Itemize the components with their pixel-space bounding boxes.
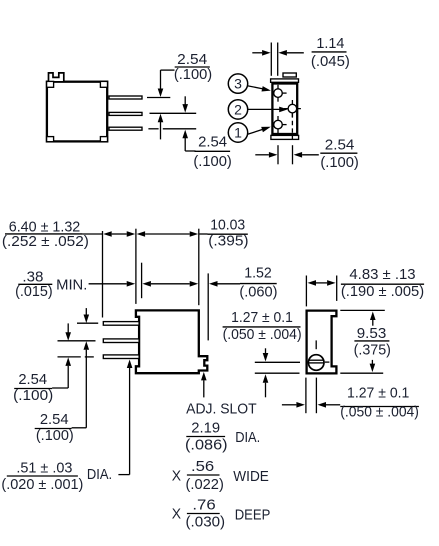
svg-text:X: X — [172, 468, 182, 484]
label 2.54 second — [193, 134, 232, 170]
extension line pin2 center — [150, 112, 197, 114]
svg-text:(.100): (.100) — [13, 388, 53, 404]
top view screw tab — [283, 73, 296, 77]
corner standoff bottom-left — [47, 137, 54, 142]
dim 2.54 pins lower up arrow — [72, 341, 90, 428]
svg-text:(.395): (.395) — [208, 234, 248, 250]
svg-text:.51 ± .03: .51 ± .03 — [16, 461, 72, 477]
extension line pin3 center — [148, 128, 196, 130]
bottom view pin 2 — [103, 339, 139, 343]
label 2.54 top-view — [320, 138, 359, 171]
side view screw tab — [49, 73, 64, 81]
svg-text:1.52: 1.52 — [244, 266, 272, 282]
svg-text:3: 3 — [234, 76, 242, 92]
svg-text:.56: .56 — [191, 459, 214, 475]
dim 2.54 top-view right arrow — [294, 152, 319, 158]
svg-text:MIN.: MIN. — [56, 278, 87, 294]
svg-text:(.100): (.100) — [320, 155, 359, 171]
label 9.53 — [354, 326, 391, 358]
vertical extension body left — [135, 229, 137, 304]
extension line pin1 — [77, 322, 98, 324]
svg-text:10.03: 10.03 — [210, 218, 245, 234]
extension line pin3 — [58, 356, 94, 358]
top view top cap — [271, 79, 299, 82]
label X .76 DEEP — [172, 497, 270, 530]
side view pin 2 — [109, 112, 142, 115]
dim 4.83 arrows — [308, 280, 336, 286]
svg-text:1.14: 1.14 — [316, 36, 344, 52]
label .51 DIA — [1, 461, 112, 494]
leader arrow from 2 — [248, 107, 288, 113]
dim 2.54 second up arrow — [182, 130, 195, 151]
leader arrow from 3 — [247, 86, 271, 92]
svg-text:DEEP: DEEP — [235, 508, 271, 524]
dim 2.54 top up arrow — [158, 114, 164, 140]
extension line pin1 center — [147, 97, 170, 99]
svg-text:(.030): (.030) — [186, 515, 226, 531]
screw center dash right — [325, 361, 330, 363]
label 1.27 left — [223, 310, 302, 343]
label 6.40 — [2, 219, 89, 250]
label 1.52 — [239, 266, 277, 301]
svg-text:(.045): (.045) — [311, 54, 350, 70]
corner standoff bottom-right — [100, 137, 107, 142]
label 10.03 — [208, 218, 249, 250]
top view bottom cap — [271, 135, 299, 139]
svg-text:(.020 ± .001): (.020 ± .001) — [1, 477, 83, 493]
svg-text:X: X — [172, 506, 182, 522]
pin 1 crosshair — [272, 116, 287, 133]
dim 2.54 top down arrow — [158, 70, 175, 97]
circled 2 — [228, 100, 247, 119]
dim .38 arrows — [89, 281, 199, 287]
dim 1.27 left extension lines — [255, 362, 300, 373]
bottom view pin 1 — [103, 322, 139, 326]
leader arrow from 1 — [247, 127, 271, 135]
circled 3 — [228, 74, 247, 93]
side view pin 1 — [109, 96, 142, 99]
svg-text:DIA.: DIA. — [235, 430, 260, 446]
dim 9.53 up arrow — [370, 312, 376, 326]
dim 9.53 down arrow — [370, 360, 376, 372]
bottom view pin 3 — [103, 355, 139, 359]
pin 2 crosshair — [284, 100, 301, 117]
label X .56 WIDE — [172, 459, 269, 493]
vertical extension body right — [198, 229, 200, 306]
label 2.54 lower — [35, 412, 74, 444]
label 2.19 DIA — [185, 421, 260, 454]
svg-text:(.022): (.022) — [186, 477, 224, 493]
svg-text:1.27 ± 0.1: 1.27 ± 0.1 — [231, 310, 293, 326]
svg-text:2.54: 2.54 — [40, 412, 69, 428]
svg-text:.76: .76 — [192, 497, 215, 513]
dim 2.54 top-view left arrow — [255, 152, 277, 158]
dashed centerline below pin 2 — [291, 113, 293, 140]
label ADJ SLOT — [186, 402, 257, 418]
svg-text:2.54: 2.54 — [325, 138, 355, 154]
pin 3 circle — [274, 89, 283, 98]
dim 2.54 pins upper up arrow — [52, 357, 71, 388]
extension line pin2 — [58, 340, 96, 342]
svg-text:2.54: 2.54 — [177, 52, 207, 68]
top view body — [272, 84, 297, 135]
svg-text:2: 2 — [234, 101, 242, 117]
leader DIA to pin — [118, 360, 132, 475]
svg-text:(.252 ± .052): (.252 ± .052) — [2, 234, 89, 250]
dim 2.54 pins lower down arrow — [84, 308, 90, 323]
dim 1.27 bottom extension lines — [306, 378, 317, 414]
label 2.54 upper — [13, 372, 53, 404]
svg-text:(.060): (.060) — [239, 285, 277, 301]
front view body — [307, 311, 337, 374]
label 2.54 top — [174, 52, 212, 83]
svg-text:2.19: 2.19 — [191, 421, 220, 437]
svg-text:WIDE: WIDE — [233, 469, 269, 485]
dim 1.14 left arrow — [252, 50, 270, 56]
dim 2.54 second down arrow — [182, 96, 188, 112]
svg-text:(.100): (.100) — [174, 67, 212, 83]
dim 1.52 right arrow — [209, 281, 240, 287]
corner standoff top-left — [47, 81, 54, 87]
dim 1.27 bottom left arrow — [282, 402, 305, 408]
dim 2.54 pins upper down arrow — [65, 323, 71, 340]
svg-text:(.015): (.015) — [15, 284, 53, 300]
dim 6.40 line and arrows — [83, 231, 136, 237]
label 4.83 — [341, 267, 424, 300]
circled 1 — [228, 123, 247, 142]
svg-text:(.100): (.100) — [36, 428, 74, 444]
vertical extension pin attach — [141, 263, 143, 299]
svg-text:(.375): (.375) — [354, 342, 391, 358]
svg-text:2.54: 2.54 — [18, 372, 47, 388]
vertical extension tab right — [207, 273, 209, 340]
svg-text:(.050 ± .004): (.050 ± .004) — [340, 405, 419, 421]
svg-text:1: 1 — [234, 124, 242, 140]
svg-text:DIA.: DIA. — [87, 467, 112, 483]
dim 9.53 extension lines — [340, 310, 385, 373]
side view body — [47, 82, 107, 142]
leader ADJ SLOT arrow — [201, 372, 207, 398]
svg-text:ADJ. SLOT: ADJ. SLOT — [186, 402, 257, 418]
vertical extension pin end — [102, 231, 104, 318]
svg-text:(.190 ± .005): (.190 ± .005) — [341, 284, 424, 300]
dim 1.14 right arrow — [278, 50, 303, 56]
dim 1.27 bottom right arrow — [318, 402, 341, 408]
side view pin 3 — [109, 127, 142, 130]
label 1.14 — [311, 36, 350, 70]
corner standoff top-right — [100, 81, 107, 87]
dim 1.27 left down arrow — [263, 348, 269, 361]
svg-text:1.27 ± 0.1: 1.27 ± 0.1 — [347, 386, 409, 402]
svg-text:4.83 ± .13: 4.83 ± .13 — [349, 267, 415, 283]
bottom side view body with slot tab — [136, 310, 207, 373]
svg-text:(.100): (.100) — [193, 154, 232, 170]
dim 10.03 line and arrows — [137, 231, 208, 237]
screw center tick above — [315, 340, 317, 349]
screw circle with slot — [308, 355, 324, 371]
dim 4.83 extension lines — [306, 276, 336, 307]
svg-text:(.050 ± .004): (.050 ± .004) — [223, 327, 302, 343]
dim 2.54 top-view extension lines — [278, 145, 293, 164]
svg-text:2.54: 2.54 — [198, 134, 227, 150]
pin 1 circle — [274, 120, 283, 129]
pin 2 circle — [288, 104, 297, 113]
pin 3 crosshair — [272, 85, 287, 102]
label 1.27 bottom — [340, 386, 419, 421]
dim 1.14 extension lines — [271, 43, 277, 76]
dim 1.27 left up arrow — [263, 374, 269, 397]
svg-text:(.086): (.086) — [185, 438, 228, 454]
svg-text:9.53: 9.53 — [357, 326, 387, 342]
label .38 MIN — [15, 269, 87, 300]
